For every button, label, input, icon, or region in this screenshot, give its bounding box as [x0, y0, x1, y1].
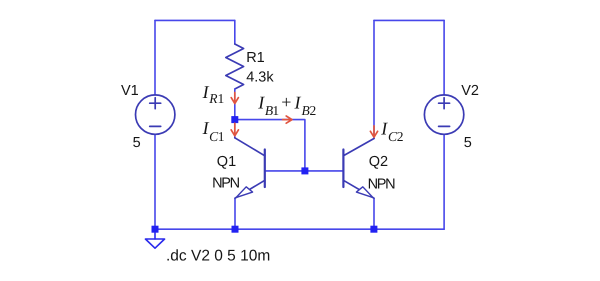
svg-text:5: 5: [133, 135, 141, 151]
wire R1 bottom lead: [234, 89, 236, 120]
junction node R1/Q1/branch: [231, 116, 238, 123]
transistor Q2 (NPN): [343, 139, 374, 199]
wire V2 top lead: [443, 20, 445, 95]
svg-text:NPN: NPN: [368, 177, 396, 193]
current arrow I_C2: [370, 126, 377, 137]
svg-text:R1: R1: [246, 50, 265, 66]
wire V1 bottom lead: [154, 134, 156, 229]
svg-text:.dc V2 0 5 10m: .dc V2 0 5 10m: [166, 248, 270, 265]
wire base rail: [265, 170, 344, 172]
transistor Q1 (mirrored NPN): [235, 138, 265, 198]
svg-text:B: B: [302, 103, 310, 118]
svg-text:2: 2: [397, 129, 404, 144]
ground: [145, 233, 164, 248]
svg-text:Q2: Q2: [369, 154, 388, 170]
current label I_C1: [202, 118, 225, 144]
wire R1 top lead: [234, 20, 236, 44]
svg-text:5: 5: [464, 135, 472, 151]
wire V1 top lead: [154, 20, 156, 95]
wire Q2 collector lead: [373, 20, 375, 138]
wire branch to bases (top): [235, 120, 305, 171]
wire V2 bottom lead: [443, 134, 445, 229]
junction node Q1 emitter: [232, 226, 239, 233]
current label I_B1 + I_B2: [257, 92, 316, 118]
wire top-right horizontal: [374, 19, 444, 21]
junction node ground: [152, 226, 159, 233]
svg-text:2: 2: [310, 103, 317, 118]
voltage source V1: [136, 95, 175, 134]
current arrow I_B1+I_B2: [283, 116, 293, 123]
svg-text:4.3k: 4.3k: [246, 70, 274, 86]
junction node Q2 emitter: [370, 226, 377, 233]
resistor R1: [226, 44, 244, 89]
svg-text:V1: V1: [121, 83, 139, 99]
junction node bases: [301, 167, 308, 174]
current arrow I_R1: [231, 93, 238, 104]
wire top-left horizontal: [155, 19, 235, 21]
current label I_C2: [380, 119, 403, 145]
svg-text:+: +: [281, 92, 291, 112]
wire Q1 collector lead: [234, 120, 236, 138]
svg-text:1: 1: [272, 103, 279, 118]
svg-text:V2: V2: [461, 83, 479, 99]
svg-text:1: 1: [218, 91, 225, 106]
svg-text:1: 1: [218, 129, 225, 144]
wire Q1 emitter lead: [234, 198, 236, 229]
wire Q2 emitter lead: [373, 198, 375, 229]
wire bottom rail: [155, 228, 444, 230]
svg-text:Q1: Q1: [217, 154, 236, 170]
voltage source V2: [424, 95, 463, 134]
svg-text:NPN: NPN: [212, 176, 240, 192]
current arrow I_C1: [231, 123, 238, 136]
svg-text:I: I: [294, 92, 302, 112]
current label I_R1: [202, 82, 225, 106]
